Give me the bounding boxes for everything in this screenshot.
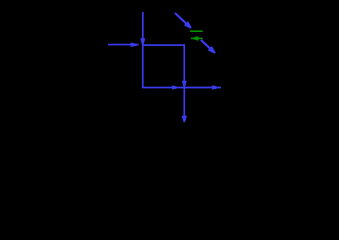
arrowhead of diagonal arrow 1 — [185, 22, 191, 28]
arrowhead of green left arrow — [194, 37, 198, 41]
green bar (top stroke of green symbol) — [190, 30, 203, 32]
green left arrow (bottom stroke of green symbol) — [191, 37, 203, 39]
wire: right horizontal arrow out of junction — [184, 87, 221, 89]
wire: top vertical arrow into square top-left node — [142, 12, 144, 45]
arrowhead of top vertical arrow — [141, 39, 145, 44]
arrowhead of bottom vertical arrow — [182, 116, 186, 121]
wire: diagonal arrow 2 (lower) — [201, 40, 215, 53]
arrowhead of right horizontal arrow — [213, 86, 218, 90]
arrowhead mid on square bottom side pointing right — [173, 86, 178, 89]
wire: diagonal arrow 1 (upper) — [175, 13, 191, 28]
wire: left horizontal arrow into square top-left node — [108, 44, 139, 46]
square block — [143, 45, 185, 87]
arrowhead of diagonal arrow 2 — [208, 47, 214, 53]
arrowhead of left horizontal arrow — [131, 43, 136, 47]
arrowhead mid on square right side pointing down — [182, 81, 186, 85]
wire: bottom vertical arrow out of junction — [183, 88, 185, 123]
